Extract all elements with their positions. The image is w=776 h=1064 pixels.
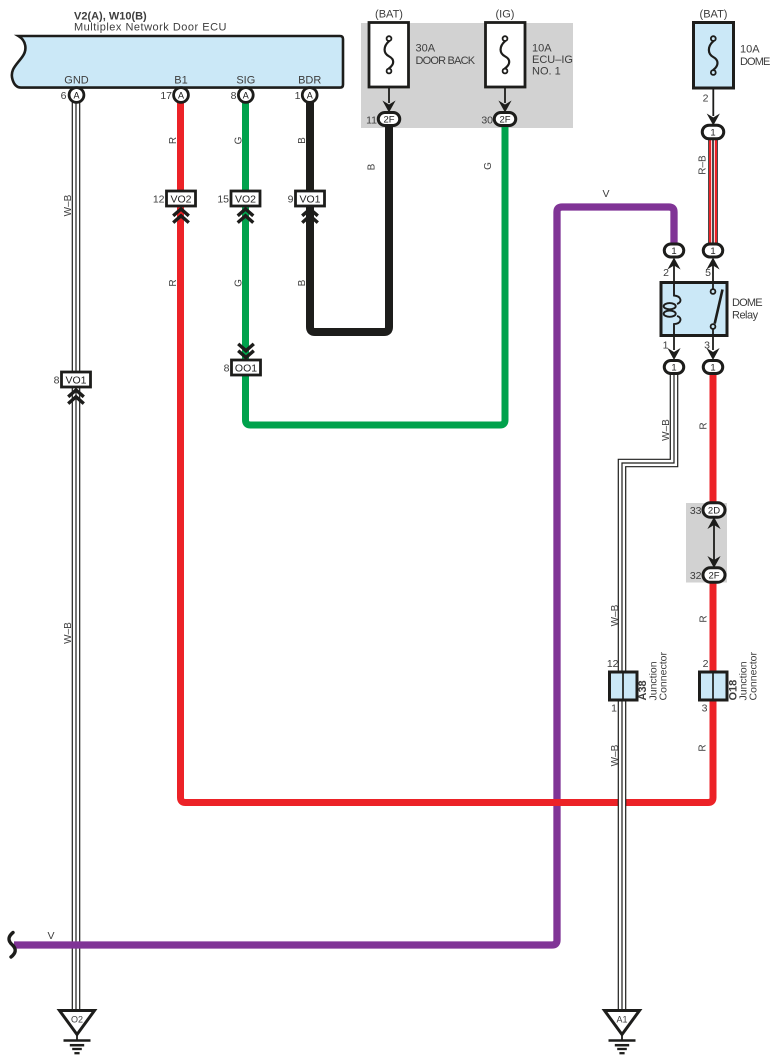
svg-text:Connector: Connector xyxy=(658,652,670,701)
svg-text:1: 1 xyxy=(710,362,715,373)
svg-text:V: V xyxy=(47,930,54,942)
svg-text:SIG: SIG xyxy=(236,75,255,87)
svg-text:B: B xyxy=(297,137,308,144)
svg-text:2: 2 xyxy=(703,658,709,670)
svg-text:1: 1 xyxy=(710,246,715,257)
svg-text:R: R xyxy=(698,744,709,751)
svg-text:G: G xyxy=(483,162,494,170)
svg-text:W–B: W–B xyxy=(63,194,74,216)
svg-text:GND: GND xyxy=(64,75,89,87)
svg-text:10A: 10A xyxy=(532,43,552,55)
svg-text:2: 2 xyxy=(663,267,669,279)
svg-text:BDR: BDR xyxy=(298,75,321,87)
svg-text:W–B: W–B xyxy=(610,604,621,626)
svg-text:B: B xyxy=(297,279,308,286)
svg-text:3: 3 xyxy=(704,340,710,352)
svg-text:W–B: W–B xyxy=(610,744,621,766)
svg-text:Connector: Connector xyxy=(748,652,760,701)
svg-text:W–B: W–B xyxy=(63,622,74,644)
svg-text:10A: 10A xyxy=(740,44,760,56)
svg-text:30: 30 xyxy=(481,115,493,127)
svg-text:ECU–IG: ECU–IG xyxy=(532,54,573,66)
svg-text:O2: O2 xyxy=(71,1015,83,1025)
svg-text:G: G xyxy=(234,279,245,287)
svg-text:8: 8 xyxy=(231,90,237,102)
svg-text:A: A xyxy=(307,90,313,100)
svg-text:15: 15 xyxy=(217,194,229,206)
svg-text:VO2: VO2 xyxy=(235,193,256,205)
svg-text:OO1: OO1 xyxy=(235,362,257,374)
svg-text:32: 32 xyxy=(690,570,702,582)
svg-text:2F: 2F xyxy=(383,114,394,125)
svg-text:1: 1 xyxy=(663,340,669,352)
svg-text:R–B: R–B xyxy=(698,155,709,175)
svg-text:12: 12 xyxy=(607,658,619,670)
svg-text:B: B xyxy=(367,163,378,170)
svg-text:2D: 2D xyxy=(708,505,720,516)
svg-text:Multiplex Network Door ECU: Multiplex Network Door ECU xyxy=(74,22,227,34)
svg-text:W–B: W–B xyxy=(661,419,672,441)
svg-text:R: R xyxy=(699,422,710,429)
svg-text:2F: 2F xyxy=(708,570,719,581)
svg-text:A: A xyxy=(73,90,79,100)
svg-text:1: 1 xyxy=(671,246,676,257)
svg-text:Relay: Relay xyxy=(732,310,759,322)
svg-text:(IG): (IG) xyxy=(496,9,515,21)
svg-text:1: 1 xyxy=(611,703,617,715)
svg-text:2F: 2F xyxy=(499,114,510,125)
svg-text:A1: A1 xyxy=(616,1015,627,1025)
svg-text:G: G xyxy=(234,136,245,144)
svg-text:3: 3 xyxy=(702,703,708,715)
svg-text:DOME: DOME xyxy=(732,297,762,309)
svg-text:R: R xyxy=(699,615,710,622)
svg-text:33: 33 xyxy=(690,505,702,517)
svg-text:1: 1 xyxy=(295,90,301,102)
svg-text:11: 11 xyxy=(366,115,377,127)
svg-text:VO1: VO1 xyxy=(65,374,86,386)
svg-text:R: R xyxy=(168,279,179,286)
svg-text:A: A xyxy=(243,90,249,100)
svg-text:2: 2 xyxy=(703,93,709,105)
svg-text:DOOR BACK: DOOR BACK xyxy=(416,55,476,67)
svg-text:1: 1 xyxy=(671,362,676,373)
svg-text:5: 5 xyxy=(705,267,711,279)
svg-text:8: 8 xyxy=(224,363,230,375)
svg-text:R: R xyxy=(168,137,179,144)
svg-text:(BAT): (BAT) xyxy=(700,9,728,21)
svg-text:8: 8 xyxy=(54,375,60,387)
svg-text:30A: 30A xyxy=(416,43,436,55)
svg-text:6: 6 xyxy=(61,90,67,102)
svg-text:9: 9 xyxy=(288,194,294,206)
svg-text:B1: B1 xyxy=(174,75,187,87)
svg-text:NO. 1: NO. 1 xyxy=(532,66,561,78)
svg-text:(BAT): (BAT) xyxy=(375,9,403,21)
svg-text:VO1: VO1 xyxy=(299,193,320,205)
svg-text:17: 17 xyxy=(160,90,172,102)
svg-text:VO2: VO2 xyxy=(170,193,191,205)
svg-text:V: V xyxy=(602,188,609,200)
svg-text:A: A xyxy=(178,90,184,100)
svg-text:DOME: DOME xyxy=(740,56,770,68)
svg-text:12: 12 xyxy=(153,194,165,206)
svg-text:1: 1 xyxy=(710,127,715,138)
